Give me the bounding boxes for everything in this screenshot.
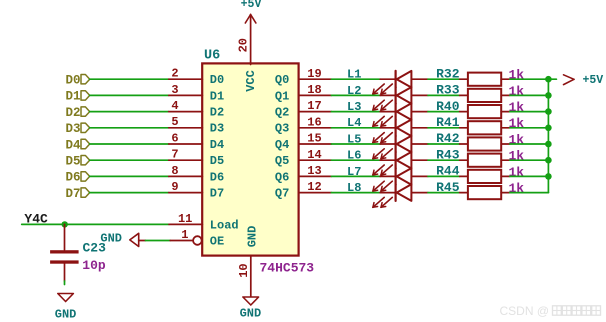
svg-text:R32: R32	[436, 66, 460, 81]
svg-text:D4: D4	[210, 138, 224, 152]
svg-text:Q4: Q4	[275, 138, 289, 152]
svg-text:L5: L5	[347, 132, 361, 146]
svg-text:GND: GND	[55, 307, 77, 321]
svg-text:1k: 1k	[509, 132, 525, 147]
svg-text:20: 20	[237, 38, 251, 52]
svg-text:1k: 1k	[509, 116, 525, 131]
svg-text:D5: D5	[210, 154, 224, 168]
svg-text:L6: L6	[347, 149, 361, 163]
svg-text:D6: D6	[65, 171, 80, 185]
svg-text:D4: D4	[65, 138, 81, 152]
svg-text:1k: 1k	[509, 84, 525, 99]
svg-text:12: 12	[307, 180, 321, 194]
svg-text:9: 9	[171, 180, 178, 194]
svg-text:Q3: Q3	[275, 122, 289, 136]
svg-text:L8: L8	[347, 181, 361, 195]
svg-text:1k: 1k	[509, 100, 525, 115]
svg-text:L4: L4	[347, 116, 361, 130]
svg-text:R44: R44	[436, 164, 460, 179]
svg-text:1: 1	[181, 228, 188, 242]
svg-text:D7: D7	[65, 187, 80, 201]
svg-text:L7: L7	[347, 165, 361, 179]
svg-text:D3: D3	[65, 122, 80, 136]
svg-text:D2: D2	[210, 106, 224, 120]
svg-text:1k: 1k	[509, 149, 525, 164]
svg-text:D1: D1	[65, 90, 80, 104]
svg-text:R45: R45	[436, 180, 460, 195]
svg-text:7: 7	[171, 148, 178, 162]
svg-text:Q1: Q1	[275, 89, 289, 103]
svg-text:1k: 1k	[509, 68, 525, 83]
svg-text:16: 16	[307, 115, 321, 129]
svg-text:19: 19	[307, 67, 321, 81]
svg-text:+5V: +5V	[241, 0, 262, 11]
svg-text:GND: GND	[245, 226, 259, 248]
svg-text:D7: D7	[210, 187, 224, 201]
svg-text:R43: R43	[436, 147, 460, 162]
svg-text:Q6: Q6	[275, 170, 289, 184]
svg-text:1k: 1k	[509, 165, 525, 180]
svg-text:Q5: Q5	[275, 154, 289, 168]
svg-text:3: 3	[171, 83, 178, 97]
svg-text:L2: L2	[347, 84, 361, 98]
svg-text:13: 13	[307, 164, 321, 178]
svg-text:L1: L1	[347, 68, 361, 82]
svg-text:D6: D6	[210, 170, 224, 184]
svg-text:L3: L3	[347, 100, 361, 114]
svg-text:Load: Load	[210, 218, 239, 232]
svg-text:CSDN @: CSDN @	[500, 304, 550, 318]
svg-text:17: 17	[307, 99, 321, 113]
svg-text:5: 5	[171, 115, 178, 129]
svg-text:R41: R41	[436, 115, 460, 130]
svg-text:D0: D0	[65, 74, 80, 88]
svg-text:VCC: VCC	[244, 70, 258, 92]
svg-text:10: 10	[237, 263, 251, 277]
svg-text:D3: D3	[210, 122, 224, 136]
svg-text:15: 15	[307, 132, 321, 146]
svg-text:10p: 10p	[82, 258, 106, 273]
svg-text:1k: 1k	[509, 181, 525, 196]
svg-text:8: 8	[171, 164, 178, 178]
svg-text:11: 11	[178, 212, 192, 226]
svg-text:OE: OE	[210, 234, 224, 248]
svg-text:6: 6	[171, 131, 178, 145]
svg-text:4: 4	[171, 99, 178, 113]
svg-text:Q2: Q2	[275, 106, 289, 120]
svg-text:C23: C23	[83, 241, 107, 256]
svg-text:74HC573: 74HC573	[260, 260, 315, 275]
svg-text:D0: D0	[210, 73, 224, 87]
svg-text:+5V: +5V	[583, 74, 604, 87]
svg-text:Q7: Q7	[275, 187, 289, 201]
svg-text:2: 2	[171, 67, 178, 81]
svg-text:Y4C: Y4C	[24, 211, 48, 226]
svg-text:D5: D5	[65, 155, 80, 169]
svg-text:D2: D2	[65, 106, 80, 120]
svg-text:R33: R33	[436, 83, 460, 98]
svg-text:R40: R40	[436, 99, 460, 114]
svg-text:U6: U6	[204, 48, 220, 63]
svg-text:14: 14	[307, 148, 321, 162]
svg-text:Q0: Q0	[275, 73, 289, 87]
svg-text:R42: R42	[436, 131, 460, 146]
svg-text:D1: D1	[210, 89, 224, 103]
svg-text:18: 18	[307, 83, 321, 97]
svg-text:GND: GND	[240, 307, 262, 321]
